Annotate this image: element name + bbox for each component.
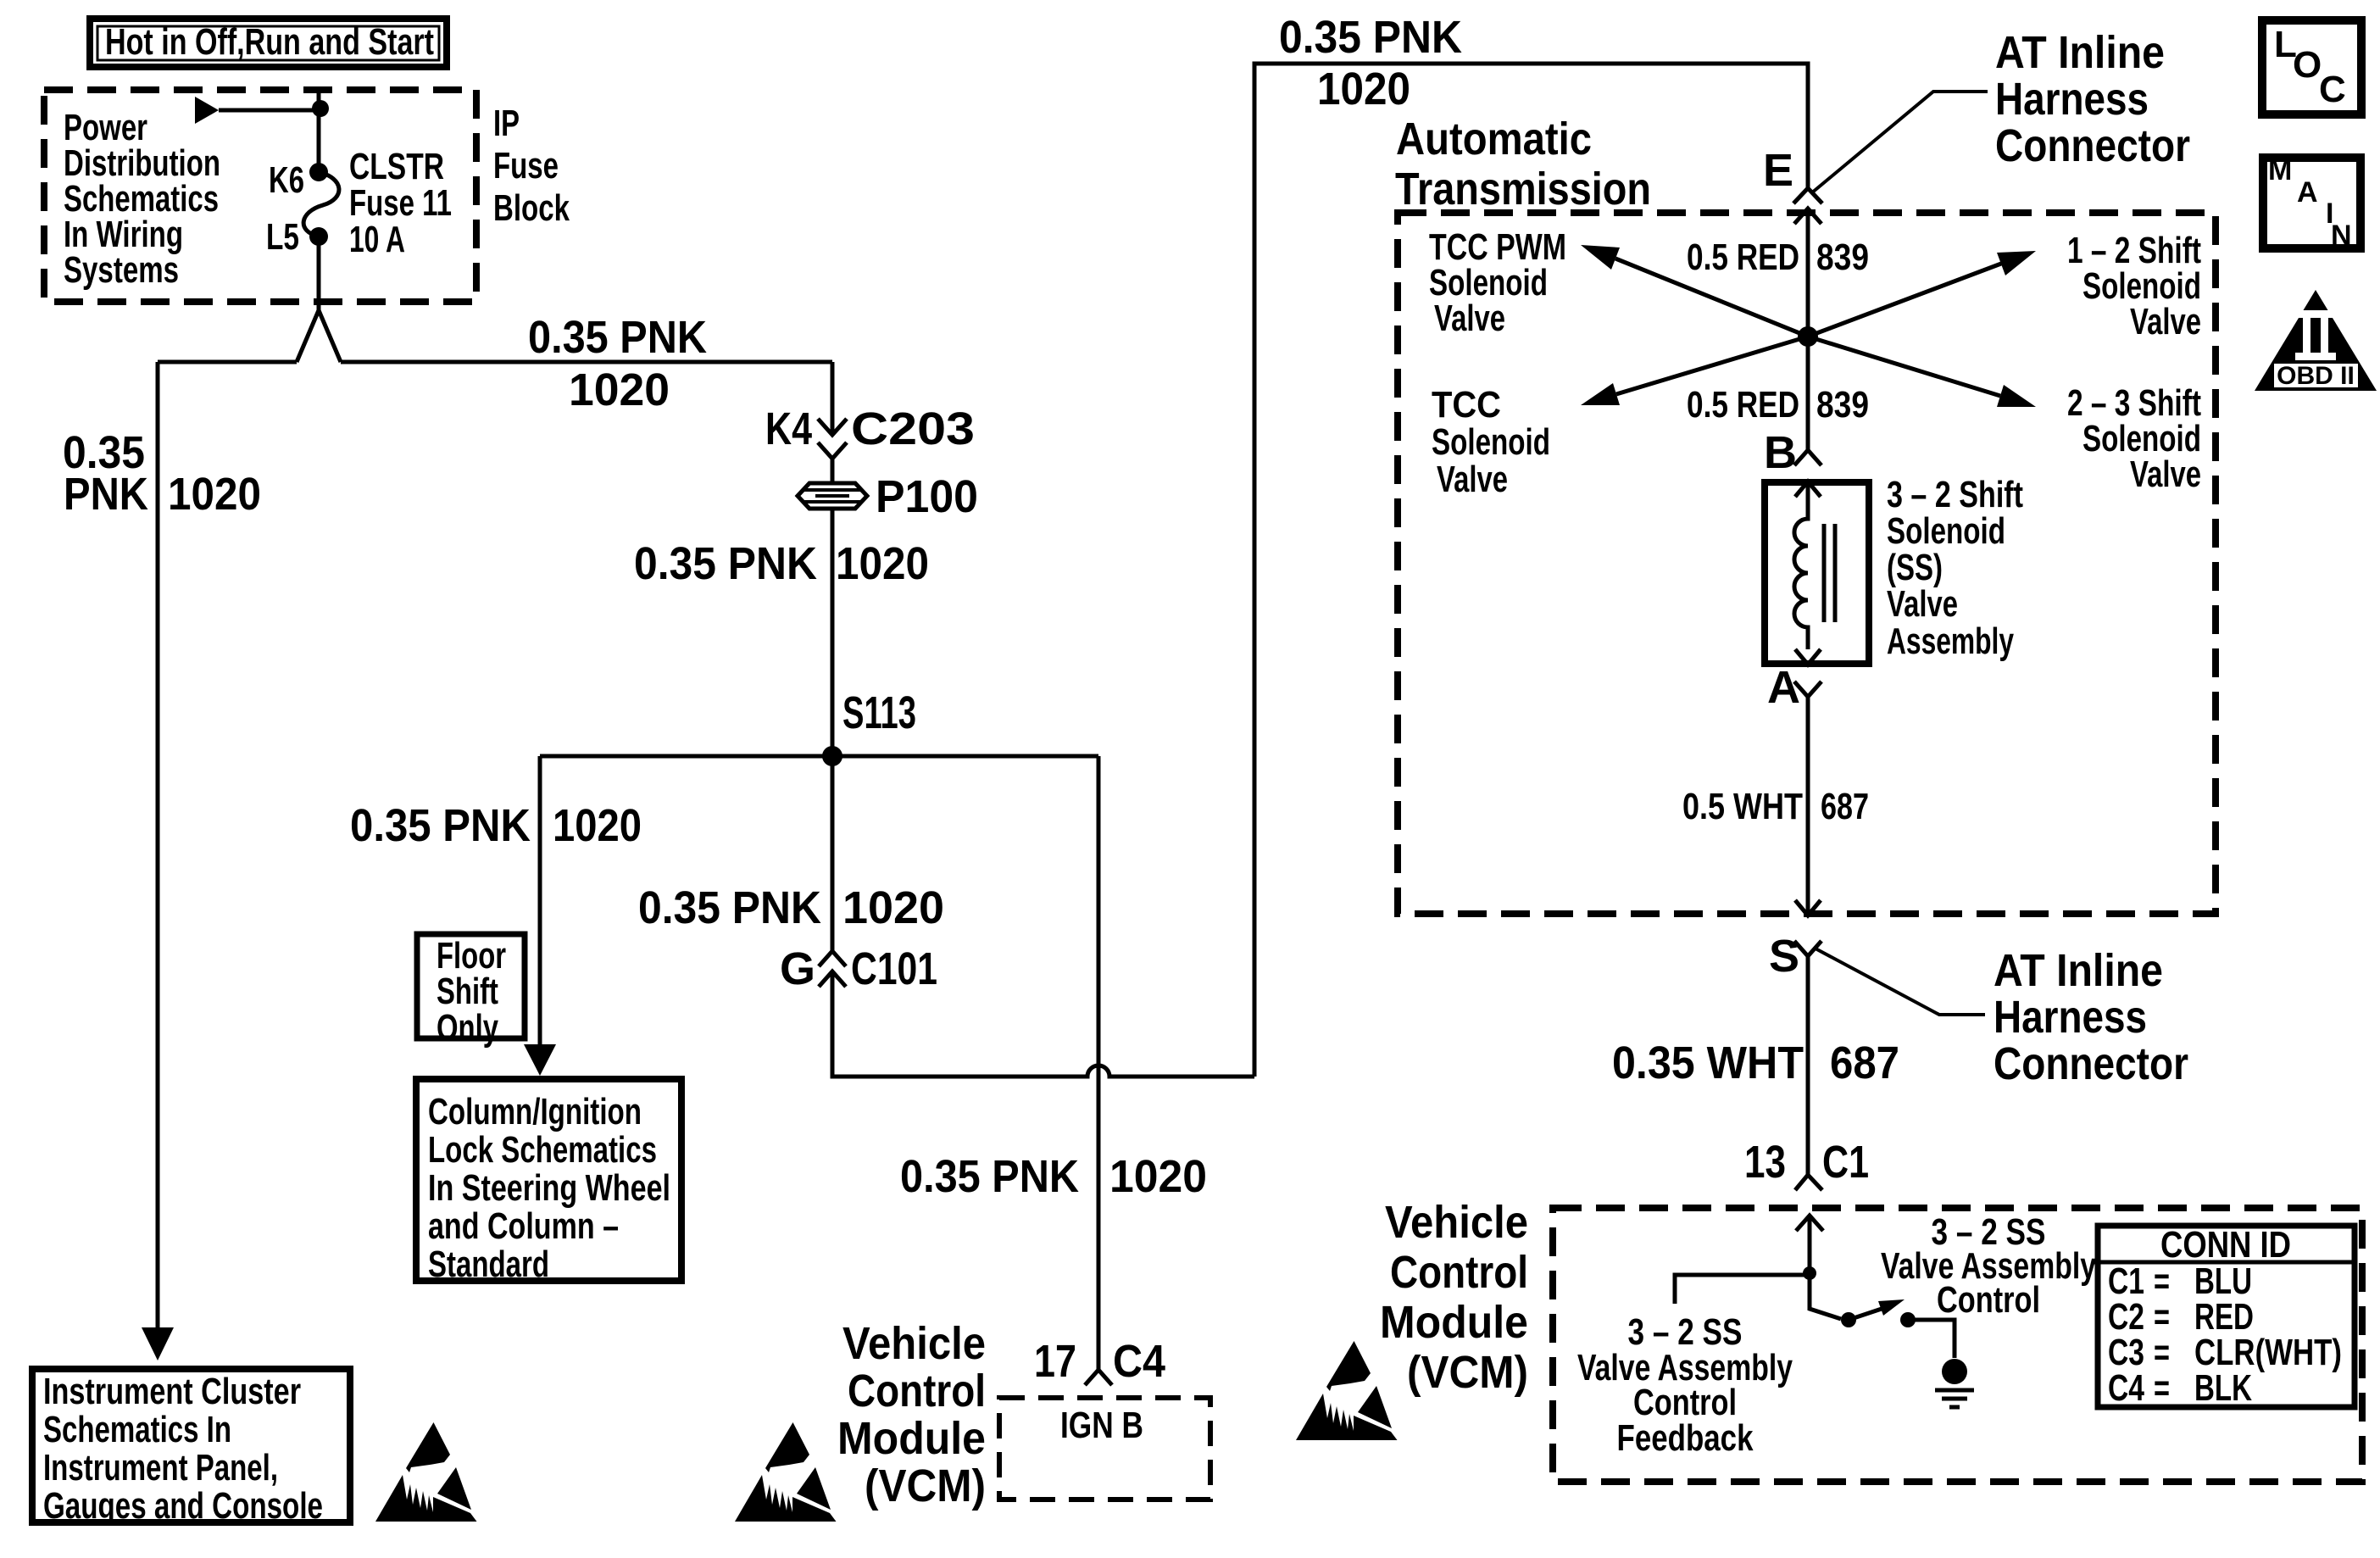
- svg-text:A: A: [1767, 662, 1800, 713]
- ESD symbol (middle): [735, 1422, 837, 1522]
- svg-text:CLSTR: CLSTR: [349, 146, 444, 187]
- wire label 0.35 PNK 1020: [900, 1151, 1207, 1202]
- wire: S113 down to C101: [831, 756, 835, 951]
- svg-text:1020: 1020: [168, 469, 261, 520]
- svg-text:Module: Module: [1380, 1297, 1528, 1348]
- wire: feed to fuse top: [219, 109, 320, 113]
- ESD symbol (right): [1296, 1341, 1398, 1440]
- svg-text:(VCM): (VCM): [865, 1461, 986, 1511]
- wire: left vertical 0.35 PNK 1020: [156, 362, 160, 1327]
- svg-text:Control: Control: [1390, 1247, 1528, 1298]
- svg-text:Automatic: Automatic: [1396, 114, 1592, 164]
- svg-text:CONN ID: CONN ID: [2160, 1224, 2291, 1266]
- svg-text:Lock Schematics: Lock Schematics: [428, 1129, 657, 1171]
- svg-text:K4: K4: [765, 403, 812, 454]
- svg-text:839: 839: [1816, 384, 1869, 426]
- svg-text:Solenoid: Solenoid: [1887, 510, 2005, 552]
- svg-text:C: C: [2319, 69, 2346, 110]
- svg-text:Systems: Systems: [64, 249, 179, 291]
- svg-text:17: 17: [1034, 1336, 1076, 1387]
- switch: 3-2 SS valve assembly control: [1810, 1273, 1841, 1319]
- svg-text:O: O: [2293, 44, 2322, 86]
- Vehicle Control Module dashed box: [1553, 1208, 2362, 1482]
- wire: loop up and across 0.35 PNK 1020: [1254, 64, 1808, 1077]
- note "Power Distribution Schematics In Wiring Systems": [64, 107, 220, 291]
- svg-text:Valve: Valve: [2130, 301, 2201, 342]
- svg-text:OBD II: OBD II: [2277, 362, 2355, 390]
- splice S113: [822, 746, 842, 766]
- svg-text:Fuse: Fuse: [493, 145, 559, 186]
- wire: P100 to S113: [831, 509, 835, 756]
- connector C4 pin 17 fork: [1085, 1370, 1112, 1385]
- wire arrow to 2-3 shift solenoid valve: [1808, 337, 2000, 396]
- wire arrow to TCC solenoid valve: [1616, 337, 1808, 394]
- wire: solenoid to transmission exit, 0.5 WHT 687: [1806, 697, 1810, 915]
- note box "Instrument Cluster Schematics In Instrument Panel, Gauges and Console": [32, 1369, 350, 1522]
- grommet P100: [798, 483, 867, 509]
- svg-text:TCC: TCC: [1432, 384, 1501, 426]
- svg-text:Harness: Harness: [1995, 74, 2149, 125]
- connector S (AT inline): [1794, 941, 1821, 956]
- arrow into Instrument Cluster schematic: [142, 1327, 174, 1360]
- svg-text:0.35 PNK: 0.35 PNK: [638, 882, 821, 933]
- label 3-2 SS Valve Assembly Control Feedback: [1577, 1311, 1793, 1459]
- node: junction above fuse: [312, 100, 329, 117]
- wire: switch to ground: [1908, 1320, 1955, 1358]
- svg-text:C203: C203: [851, 403, 975, 454]
- svg-text:0.35 PNK: 0.35 PNK: [900, 1151, 1079, 1202]
- wire: left branch horizontal: [158, 360, 297, 364]
- svg-text:Column/Ignition: Column/Ignition: [428, 1091, 642, 1132]
- svg-text:1020: 1020: [836, 538, 929, 589]
- solenoid bottom arrow: [1795, 649, 1821, 665]
- fuse CLSTR Fuse 11 10 A, terminal K6: [309, 163, 328, 181]
- svg-text:(SS): (SS): [1887, 547, 1943, 588]
- svg-text:Block: Block: [493, 187, 570, 229]
- label "Vehicle Control Module (VCM)" (middle): [837, 1318, 986, 1511]
- solenoid core lines: [1824, 524, 1835, 622]
- wire label 0.35 PNK 1020: [350, 800, 642, 851]
- svg-text:687: 687: [1821, 786, 1869, 827]
- node: solenoid feed junction: [1798, 326, 1818, 347]
- label 1-2 Shift Solenoid Valve: [2067, 230, 2201, 342]
- leader to AT Inline Harness Connector (bottom): [1814, 948, 1985, 1015]
- note box "Column/Ignition Lock Schematics In Steering Wheel and Column - Standard": [416, 1079, 681, 1281]
- connector C203 terminal K4: [818, 419, 847, 459]
- svg-text:S: S: [1769, 931, 1799, 982]
- solenoid 3-2 Shift Solenoid (SS) Valve Assembly box: [1765, 482, 1869, 664]
- svg-text:687: 687: [1830, 1038, 1899, 1088]
- svg-text:L5: L5: [266, 216, 299, 258]
- OBD II icon triangle: [2255, 290, 2377, 391]
- Automatic Transmission dashed box: [1398, 213, 2216, 914]
- svg-text:Solenoid: Solenoid: [1432, 421, 1550, 463]
- svg-text:Connector: Connector: [1995, 120, 2190, 171]
- value label CLSTR Fuse 11 10 A: [349, 146, 452, 260]
- svg-text:Instrument Cluster: Instrument Cluster: [43, 1371, 301, 1412]
- svg-text:Vehicle: Vehicle: [842, 1318, 986, 1369]
- svg-text:Standard: Standard: [428, 1244, 549, 1285]
- wire label 0.5 RED 839 (lower): [1687, 384, 1869, 426]
- svg-text:0.35 WHT: 0.35 WHT: [1612, 1038, 1804, 1088]
- svg-text:Hot in Off,Run and Start: Hot in Off,Run and Start: [105, 21, 434, 63]
- connector E (AT inline): [1793, 188, 1822, 224]
- wire: C101 down, right with hop: [832, 971, 1254, 1077]
- label "Automatic Transmission": [1395, 114, 1651, 214]
- svg-text:A: A: [2297, 176, 2318, 209]
- label 3-2 SS Valve Assembly Control: [1881, 1211, 2096, 1321]
- connector A below solenoid: [1794, 682, 1821, 697]
- MAIN icon box: [2263, 154, 2361, 252]
- wire arrow to TCC PWM solenoid valve: [1615, 259, 1808, 337]
- LOC icon box: [2262, 20, 2361, 114]
- svg-text:N: N: [2331, 220, 2352, 252]
- svg-text:0.35 PNK: 0.35 PNK: [634, 538, 817, 589]
- wire label 0.35 PNK 1020 (top middle): [528, 312, 707, 415]
- svg-text:C101: C101: [851, 943, 937, 994]
- IP fuse block dashed box: [44, 90, 476, 302]
- svg-text:IGN B: IGN B: [1060, 1405, 1143, 1446]
- svg-text:B: B: [1764, 427, 1797, 478]
- VCM IGN B dashed box: [999, 1398, 1210, 1500]
- svg-text:Feedback: Feedback: [1617, 1417, 1754, 1459]
- wire: feedback tap: [1675, 1275, 1810, 1304]
- svg-text:10 A: 10 A: [349, 219, 405, 260]
- wire arrow to 1-2 shift solenoid valve: [1808, 264, 2001, 337]
- svg-text:3 – 2 Shift: 3 – 2 Shift: [1887, 474, 2023, 515]
- svg-text:Vehicle: Vehicle: [1385, 1197, 1528, 1248]
- svg-text:Valve: Valve: [2130, 453, 2201, 495]
- solenoid coil winding: [1794, 481, 1808, 649]
- svg-text:0.35 PNK: 0.35 PNK: [1279, 12, 1462, 63]
- arrow leaving transmission: [1795, 900, 1821, 915]
- leader to AT Inline Harness Connector (top): [1811, 92, 1988, 193]
- wire: down to VCM C4: [1097, 756, 1101, 1370]
- svg-text:839: 839: [1816, 236, 1869, 278]
- svg-text:Gauges and Console: Gauges and Console: [43, 1485, 323, 1527]
- note box "Floor Shift Only": [417, 934, 525, 1038]
- svg-text:0.5 RED: 0.5 RED: [1687, 236, 1799, 278]
- connector C1 pin 13 fork: [1795, 1175, 1822, 1190]
- svg-text:Harness: Harness: [1994, 992, 2147, 1043]
- wire label 0.35 PNK 1020: [634, 538, 929, 589]
- svg-text:M: M: [2268, 154, 2292, 186]
- label 2-3 Shift Solenoid Valve: [2067, 382, 2201, 495]
- svg-text:1020: 1020: [569, 364, 670, 415]
- fuse terminal L5: [309, 227, 328, 246]
- arrow into Column/Ignition schematic: [524, 1044, 556, 1076]
- node: VCM internal junction: [1803, 1266, 1816, 1280]
- connector C101 terminal G: [819, 951, 846, 987]
- svg-text:BLK: BLK: [2194, 1367, 2252, 1409]
- wire: fuse output: [317, 236, 321, 310]
- svg-text:=: =: [2154, 1367, 2170, 1409]
- svg-text:C1: C1: [1822, 1137, 1869, 1188]
- svg-text:Assembly: Assembly: [1887, 620, 2014, 662]
- svg-text:G: G: [780, 943, 815, 994]
- wire: S to VCM C1, 0.35 WHT 687: [1806, 956, 1810, 1175]
- wire: C203 to P100: [831, 459, 835, 483]
- svg-text:Connector: Connector: [1994, 1038, 2188, 1089]
- svg-text:1020: 1020: [1109, 1151, 1207, 1202]
- svg-text:IP: IP: [493, 103, 520, 144]
- svg-text:Valve: Valve: [1437, 459, 1508, 500]
- svg-text:K6: K6: [269, 159, 304, 201]
- svg-text:(VCM): (VCM): [1407, 1347, 1528, 1398]
- wire label 0.35 PNK 1020: [638, 882, 944, 933]
- feed arrow (hot feed): [195, 97, 219, 124]
- svg-text:0.5 WHT: 0.5 WHT: [1682, 786, 1803, 827]
- svg-text:AT Inline: AT Inline: [1994, 945, 2163, 996]
- label box "Hot in Off,Run and Start": [90, 19, 447, 67]
- svg-text:and Column –: and Column –: [428, 1205, 619, 1247]
- svg-text:0.5 RED: 0.5 RED: [1687, 384, 1799, 426]
- svg-text:Module: Module: [837, 1413, 986, 1464]
- svg-text:S113: S113: [842, 687, 916, 738]
- svg-text:Valve: Valve: [1887, 583, 1958, 625]
- wire label 0.5 RED 839 (upper): [1687, 236, 1869, 278]
- svg-text:Transmission: Transmission: [1395, 164, 1651, 214]
- svg-text:Schematics In: Schematics In: [43, 1409, 231, 1450]
- CONN ID table: [2098, 1226, 2355, 1407]
- svg-text:In Steering Wheel: In Steering Wheel: [428, 1167, 670, 1209]
- svg-text:E: E: [1763, 145, 1793, 196]
- ESD symbol (left): [375, 1422, 477, 1522]
- svg-text:1020: 1020: [553, 800, 642, 851]
- svg-text:13: 13: [1744, 1137, 1786, 1188]
- wire: vertical into fuse: [317, 86, 321, 172]
- svg-text:Valve: Valve: [1434, 298, 1505, 339]
- wire label 0.35 PNK 1020 (far left): [63, 427, 261, 520]
- connector fork leaving fuse block: [297, 310, 341, 362]
- svg-text:0.35 PNK: 0.35 PNK: [350, 800, 531, 851]
- wire: S113 left branch: [540, 754, 832, 759]
- ground: [1935, 1359, 1974, 1407]
- svg-text:1020: 1020: [842, 882, 944, 933]
- svg-text:1020: 1020: [1317, 64, 1410, 114]
- svg-text:AT Inline: AT Inline: [1995, 27, 2165, 78]
- wire: horizontal to middle column: [341, 360, 832, 364]
- svg-text:PNK: PNK: [64, 469, 148, 520]
- wire: S113 right branch: [832, 754, 1098, 759]
- svg-text:P100: P100: [876, 471, 978, 522]
- svg-text:Fuse 11: Fuse 11: [349, 182, 452, 224]
- svg-text:Control: Control: [848, 1366, 986, 1416]
- wire: down to column/ignition: [538, 756, 542, 1044]
- svg-text:Only: Only: [437, 1007, 498, 1049]
- svg-text:Control: Control: [1937, 1279, 2040, 1321]
- label 3-2 Shift Solenoid (SS) Valve Assembly: [1887, 474, 2023, 662]
- label TCC Solenoid Valve: [1432, 384, 1550, 500]
- label "Vehicle Control Module (VCM)" (right): [1380, 1197, 1528, 1398]
- svg-text:C4: C4: [1113, 1336, 1165, 1387]
- svg-text:0.35 PNK: 0.35 PNK: [528, 312, 707, 363]
- wire: VCM input arrow: [1796, 1216, 1823, 1273]
- svg-text:Instrument Panel,: Instrument Panel,: [43, 1447, 278, 1488]
- svg-text:Shift: Shift: [437, 971, 498, 1012]
- connector B on solenoid assembly: [1794, 450, 1821, 497]
- label "IP Fuse Block": [493, 103, 570, 229]
- label TCC PWM Solenoid Valve: [1429, 226, 1566, 339]
- svg-text:C4: C4: [2108, 1367, 2144, 1409]
- wire: middle column down to C203: [831, 362, 835, 435]
- wire: E into transmission to junction: [1806, 209, 1810, 450]
